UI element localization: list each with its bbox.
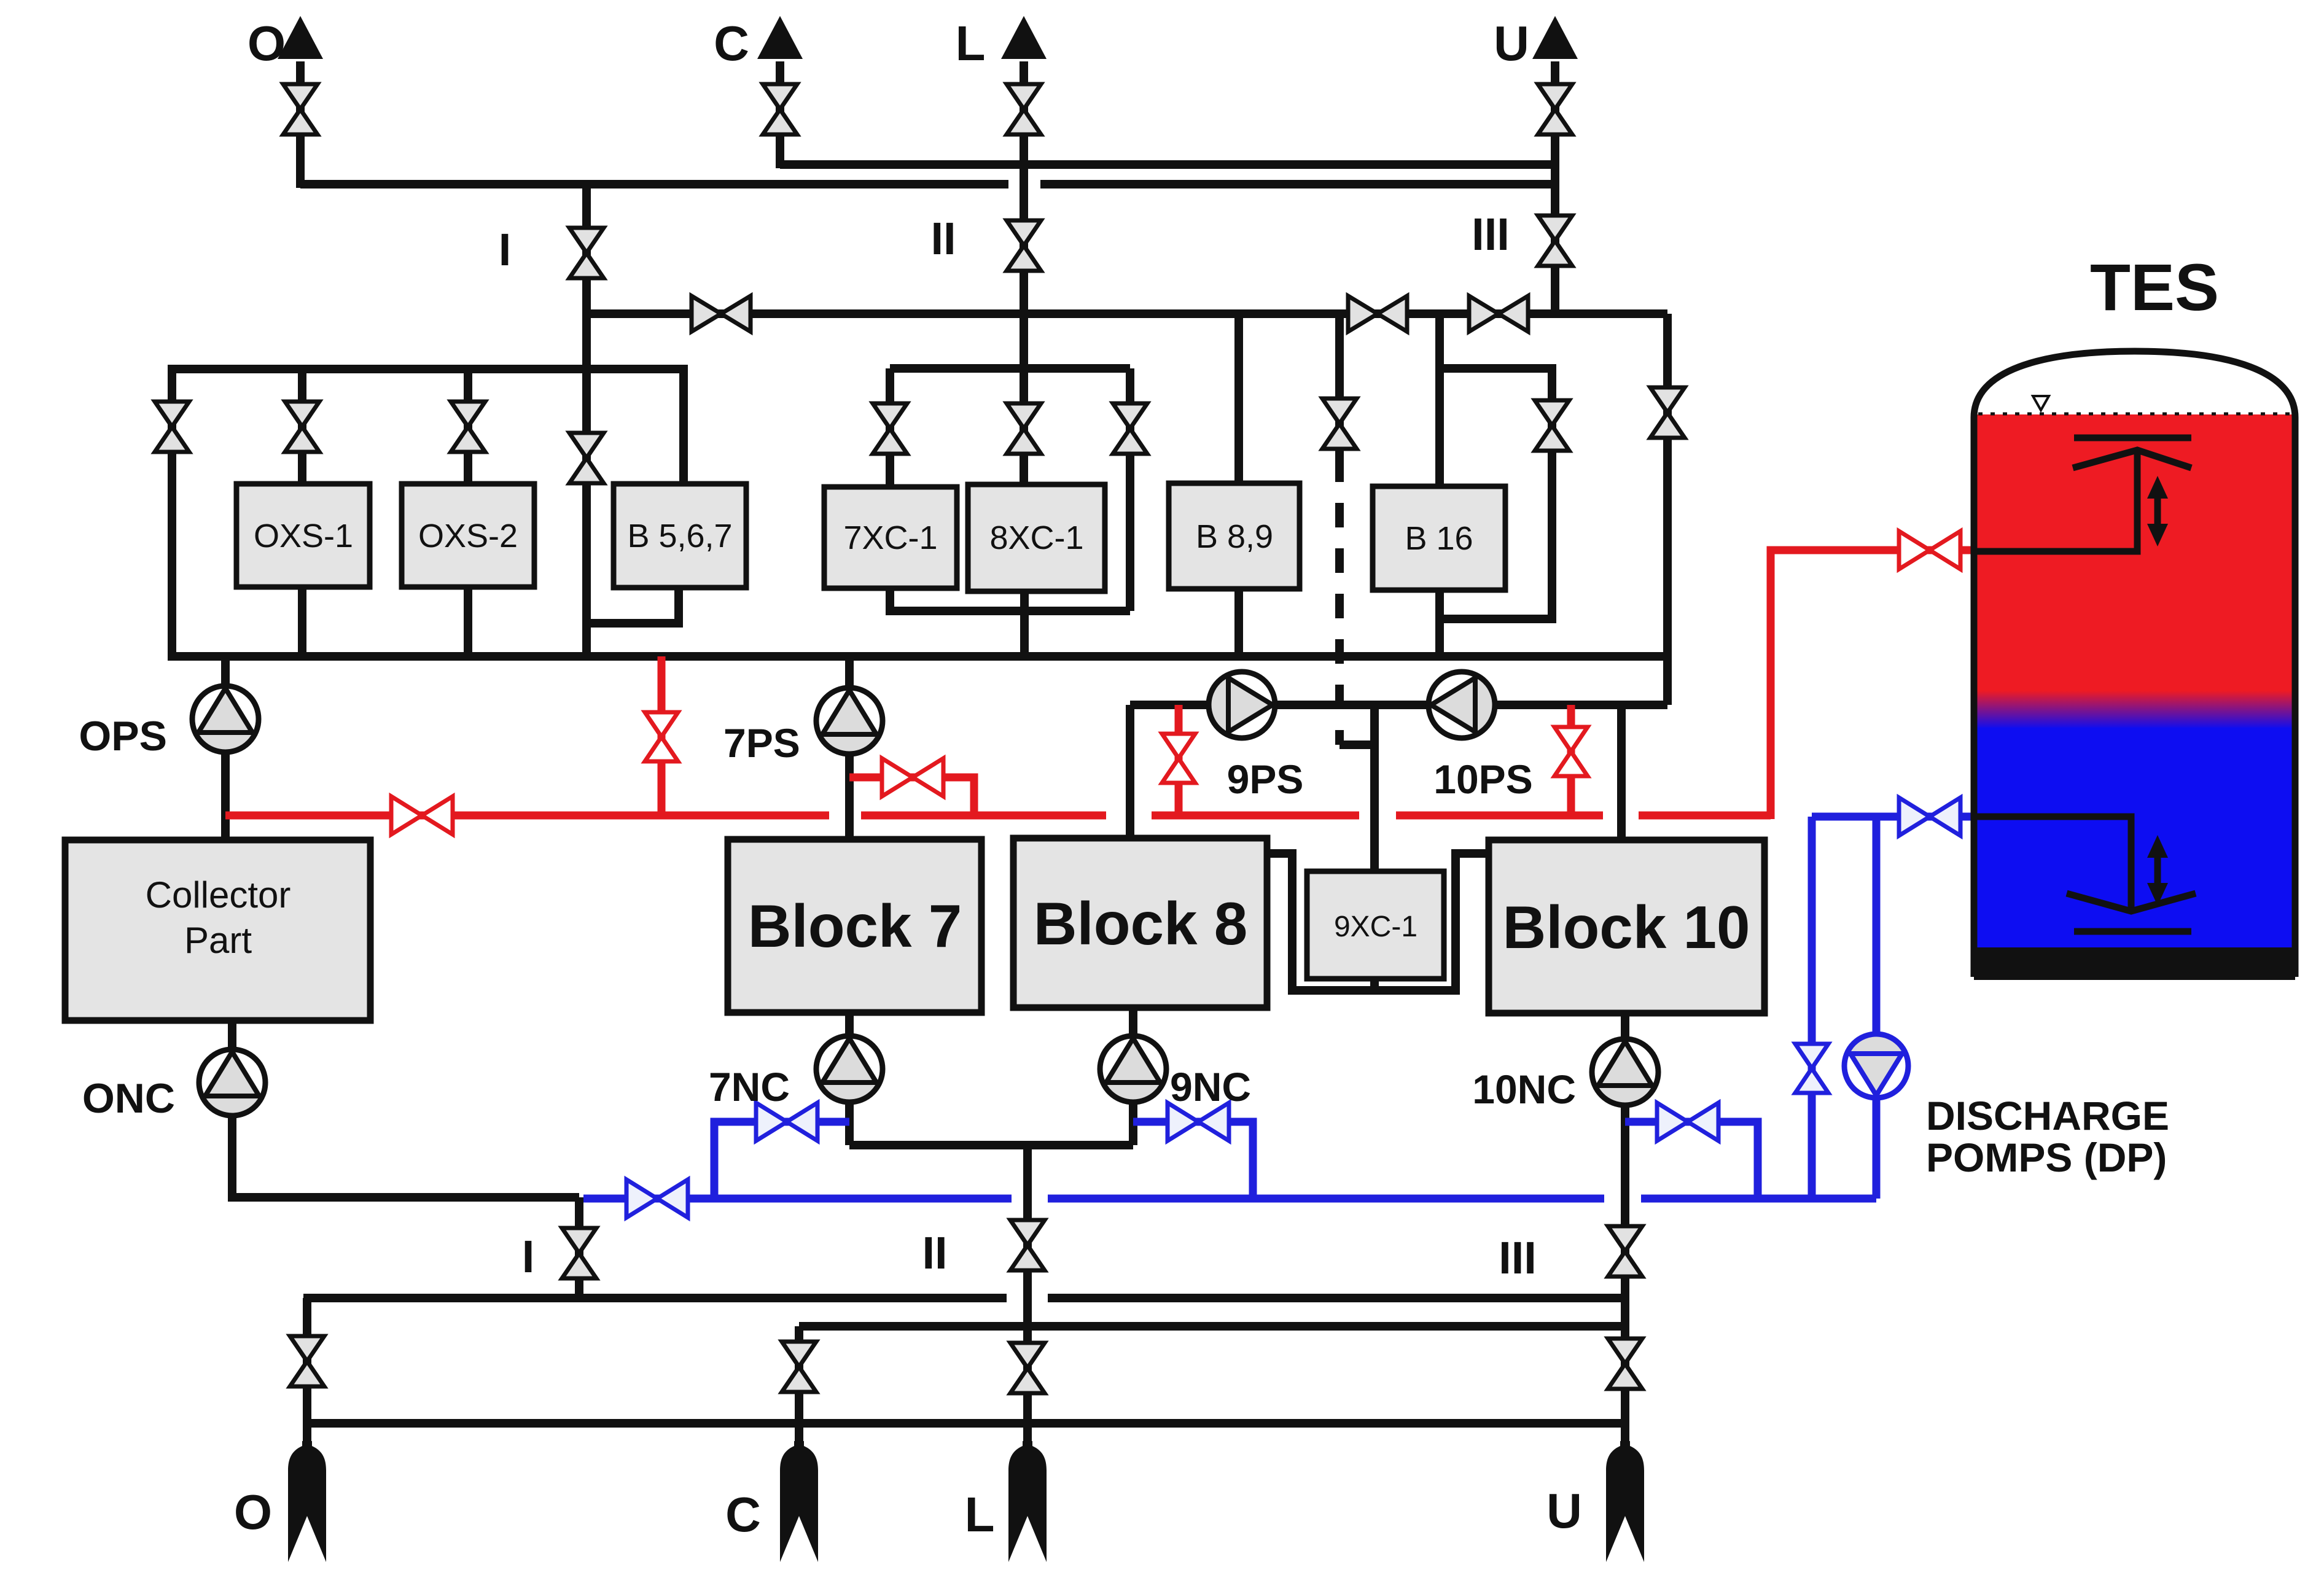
svg-text:DISCHARGE: DISCHARGE xyxy=(1926,1093,2169,1138)
svg-text:C: C xyxy=(725,1487,761,1542)
svg-text:C: C xyxy=(714,16,749,71)
svg-text:Part: Part xyxy=(184,920,252,961)
svg-text:10NC: 10NC xyxy=(1472,1067,1576,1112)
svg-text:III: III xyxy=(1472,209,1510,260)
svg-text:OPS: OPS xyxy=(79,713,167,760)
svg-text:B 5,6,7: B 5,6,7 xyxy=(627,518,732,554)
svg-text:9XC-1: 9XC-1 xyxy=(1334,911,1417,943)
svg-text:III: III xyxy=(1499,1232,1537,1283)
svg-text:POMPS (DP): POMPS (DP) xyxy=(1926,1135,2167,1180)
svg-text:U: U xyxy=(1546,1483,1582,1538)
svg-text:II: II xyxy=(930,213,956,264)
svg-text:ONC: ONC xyxy=(82,1075,175,1122)
svg-text:Block 7: Block 7 xyxy=(748,892,962,960)
svg-text:O: O xyxy=(248,16,286,71)
svg-text:7XC-1: 7XC-1 xyxy=(843,519,937,556)
svg-text:TES: TES xyxy=(2090,250,2219,324)
svg-text:B 16: B 16 xyxy=(1405,520,1473,557)
svg-text:Block 10: Block 10 xyxy=(1502,893,1750,961)
svg-text:I: I xyxy=(522,1231,535,1282)
svg-text:I: I xyxy=(499,224,512,275)
svg-text:II: II xyxy=(922,1227,947,1278)
svg-text:OXS-1: OXS-1 xyxy=(254,518,353,554)
svg-text:8XC-1: 8XC-1 xyxy=(989,519,1083,556)
svg-text:L: L xyxy=(956,16,986,71)
svg-text:Collector: Collector xyxy=(146,874,291,915)
svg-text:7NC: 7NC xyxy=(709,1064,790,1110)
svg-text:10PS: 10PS xyxy=(1433,756,1532,802)
svg-text:7PS: 7PS xyxy=(723,720,800,766)
svg-text:L: L xyxy=(965,1487,995,1542)
svg-text:Block 8: Block 8 xyxy=(1034,890,1248,957)
svg-text:O: O xyxy=(234,1485,272,1539)
svg-text:9NC: 9NC xyxy=(1170,1064,1251,1110)
svg-text:U: U xyxy=(1494,16,1529,71)
svg-text:B 8,9: B 8,9 xyxy=(1196,518,1273,555)
svg-text:OXS-2: OXS-2 xyxy=(418,518,518,554)
svg-text:9PS: 9PS xyxy=(1227,756,1304,802)
